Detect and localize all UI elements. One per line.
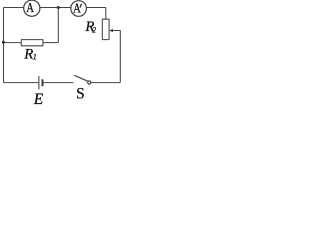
svg-text:E: E [33,91,44,106]
svg-text:A: A [26,0,34,16]
svg-text:A: A [73,0,81,16]
svg-text:2: 2 [92,26,96,35]
svg-text:1: 1 [33,53,37,62]
svg-text:S: S [76,85,85,102]
